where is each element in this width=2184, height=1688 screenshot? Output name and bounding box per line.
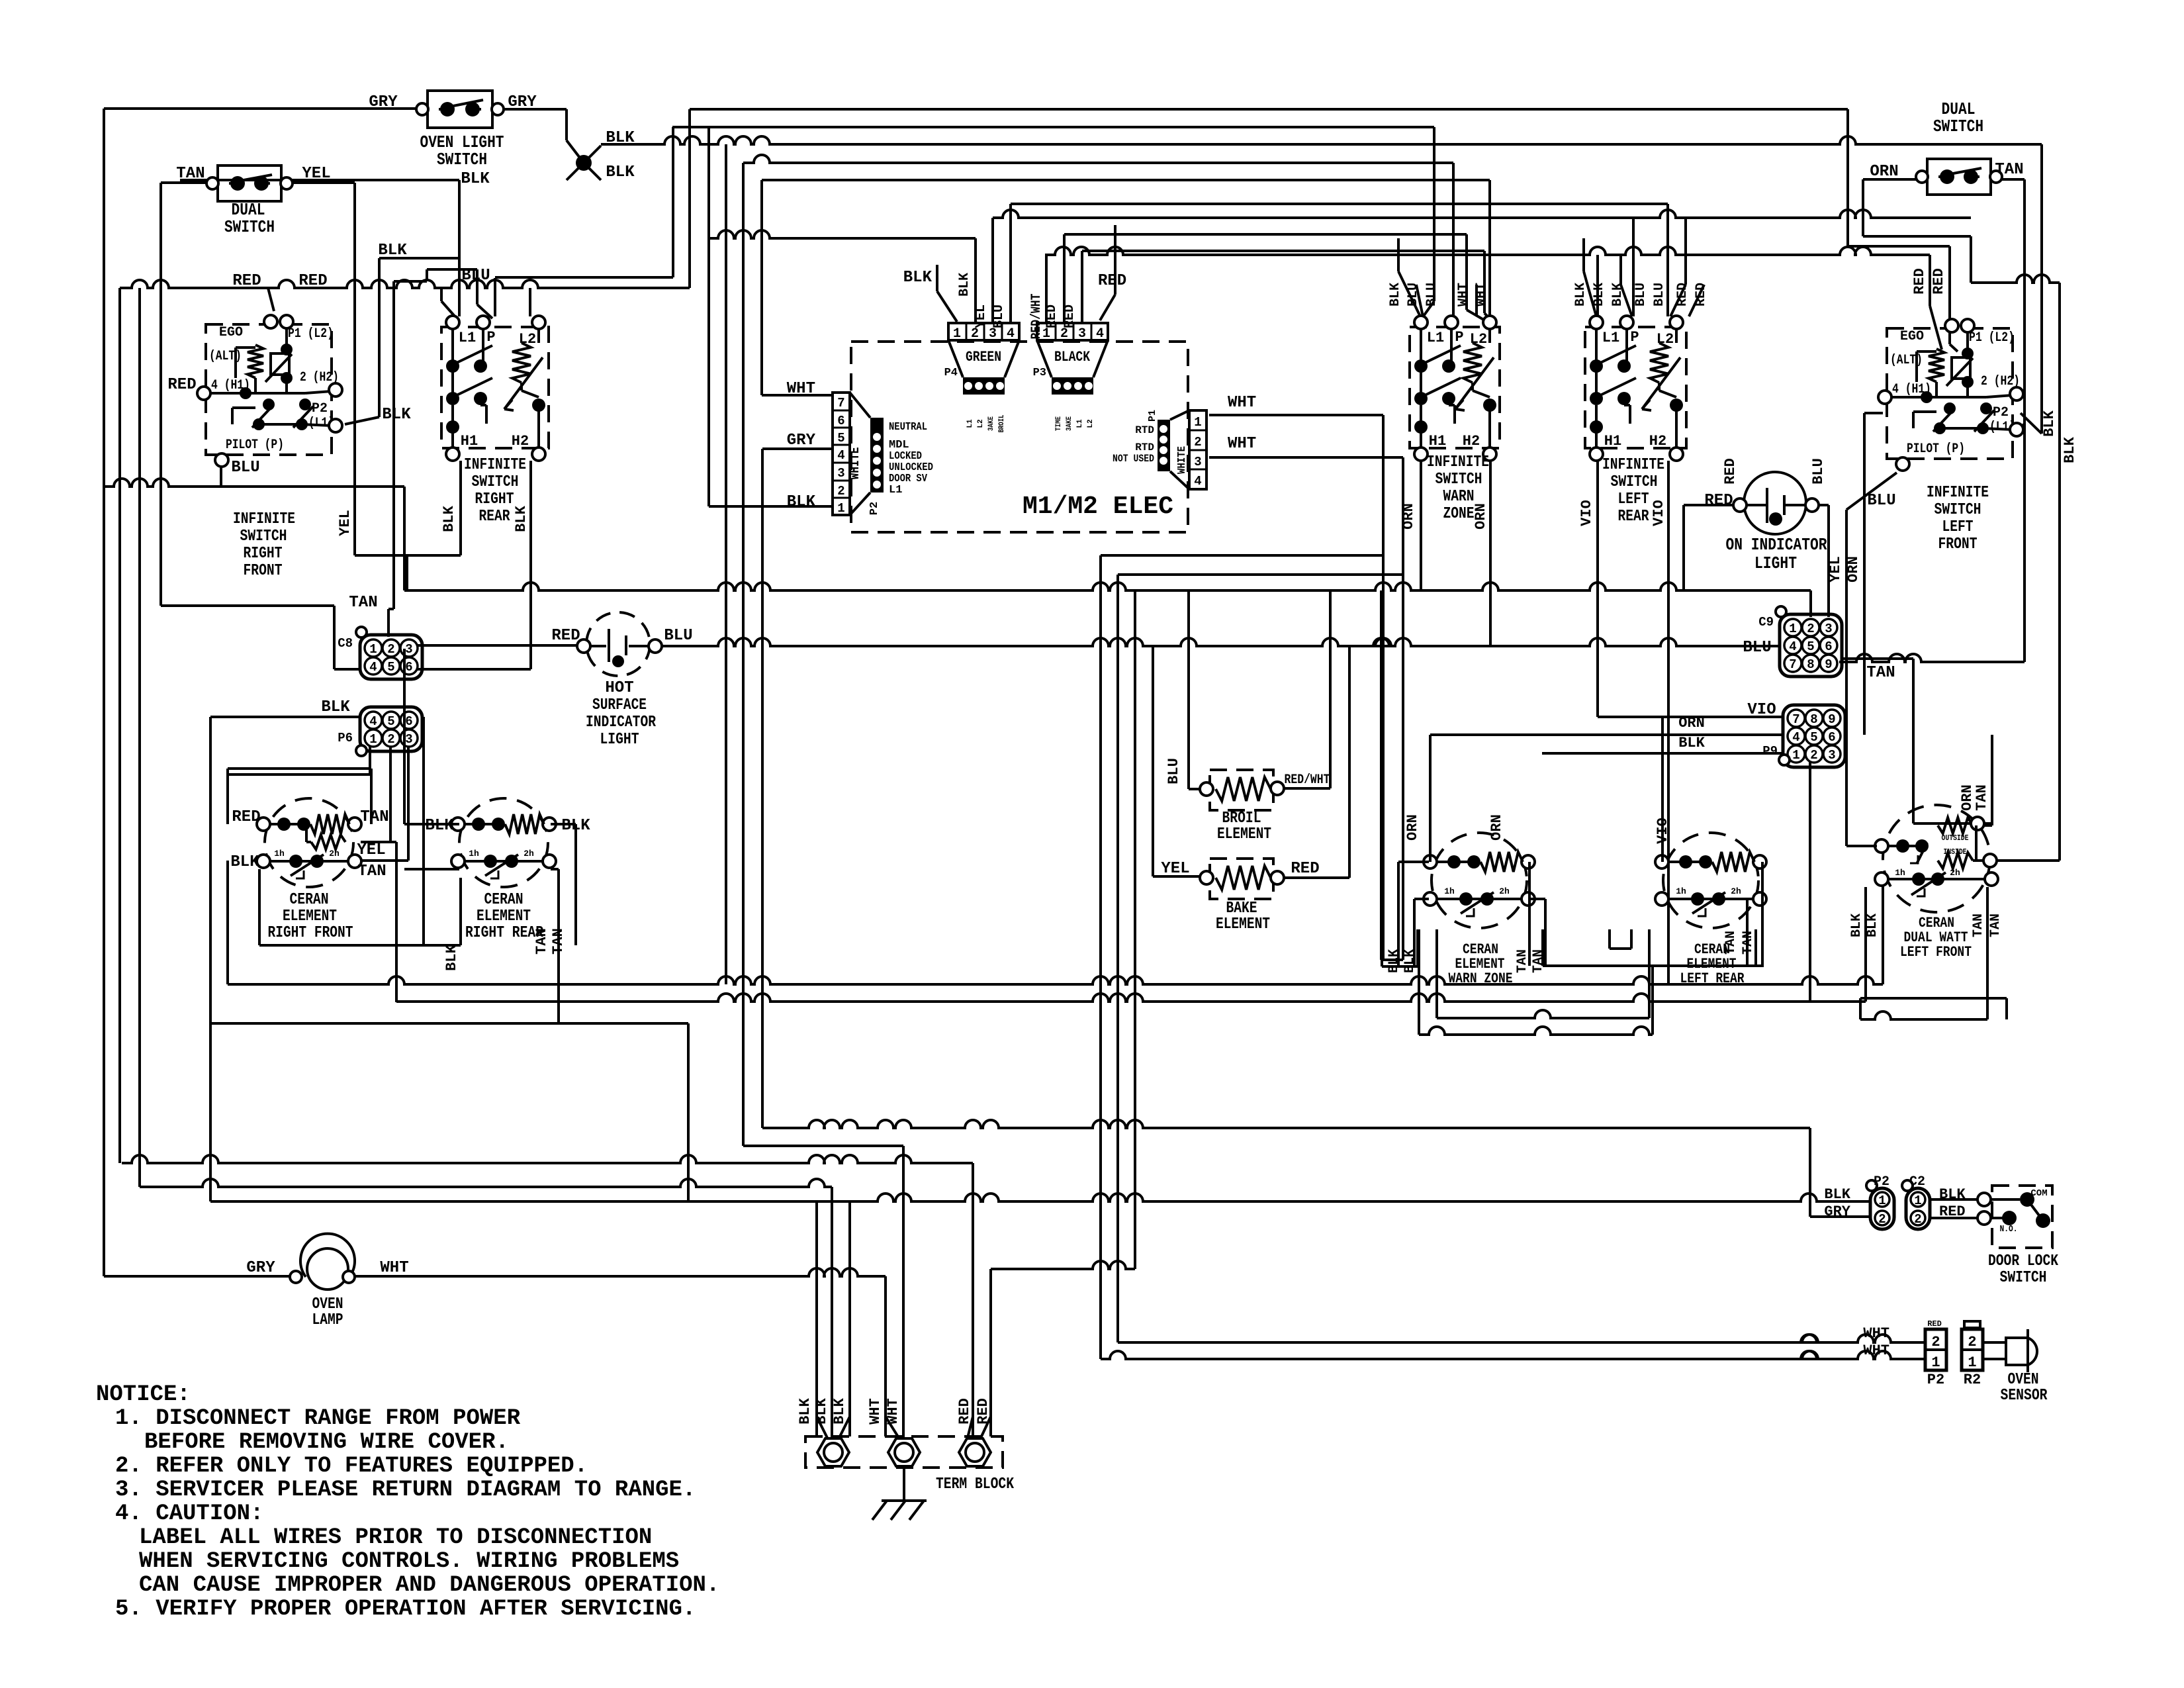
wire v3085 corner xyxy=(2040,144,2043,434)
wire bus y385 xyxy=(1045,247,1930,255)
C8 connector xyxy=(360,635,422,679)
wire YEL from pilot xyxy=(1846,473,1897,510)
svg-text:BEFORE REMOVING WIRE COVER.: BEFORE REMOVING WIRE COVER. xyxy=(144,1430,509,1455)
svg-text:NEUTRAL: NEUTRAL xyxy=(889,421,927,434)
wire P9 pin2 drop xyxy=(1809,762,1811,1002)
wire C9 right to corner xyxy=(1843,657,1913,660)
door lock P2 xyxy=(1870,1188,1894,1229)
wire term block WHT1 from lamp xyxy=(884,1276,887,1436)
ceran right front xyxy=(265,798,353,887)
svg-text:ELEMENT: ELEMENT xyxy=(283,908,337,925)
svg-text:ORN: ORN xyxy=(1845,556,1862,583)
wire top bus y246 xyxy=(743,155,1453,163)
svg-text:OUTSIDE: OUTSIDE xyxy=(1942,833,1969,843)
svg-text:EGO: EGO xyxy=(219,325,243,340)
svg-text:BLK: BLK xyxy=(2041,410,2058,436)
wire corner v1663 xyxy=(1099,555,1102,1359)
svg-text:L1: L1 xyxy=(966,419,974,428)
svg-text:YEL: YEL xyxy=(357,841,385,859)
wire WHT M1/M2 pin7 xyxy=(762,394,831,397)
svg-text:ORN: ORN xyxy=(1400,503,1417,530)
svg-text:L1: L1 xyxy=(1076,419,1084,428)
svg-text:DOOR LOCK: DOOR LOCK xyxy=(1988,1252,2058,1270)
svg-text:1: 1 xyxy=(1792,748,1799,763)
svg-text:6: 6 xyxy=(1825,639,1832,654)
wire BLU bridge xyxy=(427,268,477,271)
wire top bus y192 xyxy=(672,126,1434,128)
wire GRY M1/M2 pin4 xyxy=(762,447,831,450)
svg-text:RED: RED xyxy=(167,376,196,394)
svg-text:GRY: GRY xyxy=(508,93,537,111)
svg-text:BLK: BLK xyxy=(230,853,259,871)
wire BLK P6 connect xyxy=(209,717,212,1201)
wire h1546 to v1040 xyxy=(210,1022,688,1025)
svg-text:L1: L1 xyxy=(1427,330,1444,346)
svg-text:BLK: BLK xyxy=(1573,283,1588,306)
svg-text:REAR: REAR xyxy=(479,508,510,526)
left rear element wires xyxy=(1661,717,1664,862)
svg-text:RED: RED xyxy=(1704,492,1733,510)
svg-text:P1 (L2): P1 (L2) xyxy=(1969,330,2015,346)
svg-text:SWITCH: SWITCH xyxy=(1934,501,1981,519)
svg-text:RED: RED xyxy=(1722,458,1739,485)
svg-text:L1: L1 xyxy=(1602,330,1619,346)
svg-text:LAMP: LAMP xyxy=(312,1311,343,1329)
svg-text:LEFT REAR: LEFT REAR xyxy=(1680,970,1745,987)
svg-text:BLK: BLK xyxy=(425,817,454,835)
svg-text:P: P xyxy=(1455,329,1463,346)
svg-text:6: 6 xyxy=(1828,730,1835,745)
term block lead-ins xyxy=(817,1417,827,1438)
svg-text:2h: 2h xyxy=(1950,868,1960,878)
svg-text:P1: P1 xyxy=(1147,410,1158,422)
svg-text:INSIDE: INSIDE xyxy=(1944,847,1967,857)
svg-text:BLK: BLK xyxy=(382,406,411,424)
svg-text:2: 2 xyxy=(387,732,394,747)
svg-text:3: 3 xyxy=(1078,326,1086,342)
svg-text:4: 4 xyxy=(1007,326,1015,342)
svg-text:CERAN: CERAN xyxy=(290,891,329,909)
oven light switch box xyxy=(428,91,492,128)
wire bus y976 through hot light xyxy=(662,638,1780,646)
wire BLU broil xyxy=(1187,590,1190,789)
wire BLU stub to P xyxy=(494,278,496,316)
svg-text:FRONT: FRONT xyxy=(1938,536,1978,553)
wire BLK from left-front P2 xyxy=(2021,413,2042,434)
svg-text:2h: 2h xyxy=(523,849,534,859)
svg-text:4: 4 xyxy=(1194,474,1201,489)
wire GRY border to oven lamp xyxy=(103,109,105,1276)
warn zone element wires xyxy=(1429,735,1432,862)
svg-text:P1 (L2): P1 (L2) xyxy=(288,326,334,342)
wire top bus y272 xyxy=(762,179,1490,181)
svg-text:SWITCH: SWITCH xyxy=(472,473,519,491)
svg-text:P: P xyxy=(1630,329,1639,346)
svg-text:VIO: VIO xyxy=(1747,701,1776,719)
svg-text:M1/M2 ELEC: M1/M2 ELEC xyxy=(1023,492,1173,521)
wire BLU pilot chain xyxy=(220,465,222,487)
wire BLK bridge xyxy=(379,257,459,259)
svg-text:ORN: ORN xyxy=(1488,814,1505,841)
svg-text:SWITCH: SWITCH xyxy=(1611,473,1658,491)
wire BLU to C8 pin2 xyxy=(426,269,428,281)
svg-text:GRY: GRY xyxy=(1824,1203,1850,1220)
svg-text:1h: 1h xyxy=(1676,886,1686,896)
svg-text:SWITCH: SWITCH xyxy=(240,528,287,545)
svg-text:RED: RED xyxy=(232,808,260,826)
svg-text:1h: 1h xyxy=(469,849,479,859)
svg-text:BLU: BLU xyxy=(664,627,692,645)
svg-text:SWITCH: SWITCH xyxy=(224,217,275,237)
svg-text:P4: P4 xyxy=(944,367,958,379)
svg-text:5. VERIFY PROPER OPERATION AF: 5. VERIFY PROPER OPERATION AFTER SERVICI… xyxy=(115,1597,696,1622)
svg-text:ZONE: ZONE xyxy=(1443,505,1475,523)
svg-text:YEL: YEL xyxy=(1161,860,1189,878)
wire GRY into X junction xyxy=(565,109,568,140)
svg-text:BLU: BLU xyxy=(1652,283,1667,306)
svg-text:H1: H1 xyxy=(1429,433,1446,449)
wire bus y1487 xyxy=(228,976,1883,984)
svg-text:5: 5 xyxy=(837,431,844,445)
svg-text:P2: P2 xyxy=(1927,1372,1944,1388)
svg-text:1: 1 xyxy=(369,642,377,657)
svg-text:2h: 2h xyxy=(1499,886,1510,896)
wire term block BLK2 xyxy=(831,1187,833,1436)
wire BLU on-light right xyxy=(1812,504,1829,506)
svg-text:P2: P2 xyxy=(868,502,881,515)
svg-text:BLK: BLK xyxy=(443,944,460,970)
svg-text:REAR: REAR xyxy=(1618,508,1649,526)
svg-text:TAN: TAN xyxy=(1971,914,1986,937)
svg-text:BLK: BLK xyxy=(787,493,816,511)
svg-text:INFINITE: INFINITE xyxy=(1602,456,1664,474)
svg-text:CAN CAUSE IMPROPER AND DANGERO: CAN CAUSE IMPROPER AND DANGEROUS OPERATI… xyxy=(139,1573,719,1598)
wire BLK M1/M2 pin1 xyxy=(709,505,831,508)
svg-text:RIGHT: RIGHT xyxy=(244,545,283,563)
svg-text:SWITCH: SWITCH xyxy=(1435,471,1482,489)
svg-text:4. CAUTION:: 4. CAUTION: xyxy=(115,1501,263,1526)
svg-text:BLK: BLK xyxy=(321,698,350,716)
svg-text:5: 5 xyxy=(1807,639,1814,654)
wire right-rear switch H2 down xyxy=(529,461,532,669)
svg-text:RED/WHT: RED/WHT xyxy=(1285,773,1330,788)
svg-text:BLK: BLK xyxy=(2062,436,2078,463)
svg-text:BLU: BLU xyxy=(1165,758,1182,784)
svg-text:HOT: HOT xyxy=(605,679,633,697)
wire RED on-light left xyxy=(1684,504,1733,506)
wire mid vertical v1715 xyxy=(1134,590,1136,1269)
svg-text:RED: RED xyxy=(956,1398,973,1425)
svg-text:1: 1 xyxy=(1968,1354,1976,1371)
wire YEL bake xyxy=(1152,646,1154,876)
wire dual-watt element bottom xyxy=(1864,887,1867,1002)
svg-text:BLK: BLK xyxy=(461,170,490,188)
M1/M2 white connector P2 xyxy=(833,393,850,515)
svg-text:TERM BLOCK: TERM BLOCK xyxy=(936,1476,1014,1493)
svg-text:6: 6 xyxy=(405,714,412,729)
svg-text:BLU: BLU xyxy=(1810,458,1827,485)
svg-text:1: 1 xyxy=(1914,1194,1921,1208)
bake element xyxy=(1210,859,1273,899)
svg-text:OVEN: OVEN xyxy=(2008,1371,2039,1389)
svg-text:TAN: TAN xyxy=(176,165,205,183)
dual watt wires xyxy=(1846,845,1877,847)
svg-text:GRY: GRY xyxy=(787,432,816,449)
svg-text:P9: P9 xyxy=(1762,744,1778,759)
svg-text:TAN: TAN xyxy=(357,863,386,880)
svg-text:4: 4 xyxy=(369,660,377,675)
svg-text:C2: C2 xyxy=(1909,1174,1925,1190)
svg-text:GRY: GRY xyxy=(369,93,398,111)
svg-text:BLK: BLK xyxy=(813,1397,830,1424)
svg-text:4: 4 xyxy=(1789,639,1796,654)
svg-text:C8: C8 xyxy=(338,636,353,651)
svg-text:2: 2 xyxy=(1810,748,1817,763)
wire bus y1513 xyxy=(396,994,1866,1002)
svg-text:BLK: BLK xyxy=(606,164,635,181)
wire feeds left-rear switch xyxy=(1596,255,1599,316)
svg-text:1: 1 xyxy=(1789,622,1796,636)
svg-text:2: 2 xyxy=(1931,1334,1940,1350)
dual switch right box xyxy=(1927,159,1991,195)
svg-text:TAN: TAN xyxy=(1531,949,1546,973)
svg-text:4: 4 xyxy=(1792,730,1799,745)
svg-text:6: 6 xyxy=(837,414,844,428)
wire right-rear switch H1 down xyxy=(459,461,462,555)
svg-text:BLK: BLK xyxy=(1678,735,1705,751)
svg-text:BLK: BLK xyxy=(831,1397,848,1424)
svg-text:TAN: TAN xyxy=(1515,949,1530,973)
svg-text:RED: RED xyxy=(232,272,261,290)
svg-text:TAN: TAN xyxy=(1995,161,2023,179)
svg-text:RED: RED xyxy=(551,627,580,645)
wire RED bus y435 xyxy=(120,280,690,288)
wire RED/WHT broil xyxy=(1284,787,1330,790)
svg-text:BLK: BLK xyxy=(606,129,635,147)
svg-text:P: P xyxy=(486,329,495,346)
wire BLK from X to right-rear L1 xyxy=(180,179,459,181)
svg-text:OVEN: OVEN xyxy=(312,1295,343,1313)
svg-text:LIGHT: LIGHT xyxy=(1754,553,1797,573)
wire right border vert x2087 xyxy=(1380,590,1383,960)
wire ORN right dual switch xyxy=(1863,178,1918,181)
wire WHT RTD right 2 xyxy=(1209,456,1403,459)
wire left-rear element box xyxy=(1541,929,1544,966)
svg-text:3. SERVICER PLEASE RETURN DIA: 3. SERVICER PLEASE RETURN DIAGRAM TO RAN… xyxy=(115,1477,696,1503)
svg-text:7: 7 xyxy=(1792,712,1799,727)
wire WHT lamp to term block xyxy=(353,1268,886,1276)
svg-text:BROIL: BROIL xyxy=(998,414,1006,432)
M1/M2 ELEC box xyxy=(851,342,1188,532)
svg-text:YEL: YEL xyxy=(337,510,353,536)
svg-text:BLK: BLK xyxy=(441,505,457,532)
wire bus y360 xyxy=(709,230,976,238)
svg-text:H1: H1 xyxy=(461,433,478,449)
M1/M2 black connector xyxy=(1037,323,1108,340)
wire GRY long to door lock xyxy=(762,1120,1810,1128)
M1/M2 green connector xyxy=(948,323,1019,340)
wire warn switch H1 down xyxy=(1420,461,1422,590)
svg-text:NOT USED: NOT USED xyxy=(1113,453,1154,465)
svg-text:2h: 2h xyxy=(1731,886,1741,896)
svg-text:2: 2 xyxy=(1968,1334,1976,1350)
svg-text:BLU: BLU xyxy=(1424,283,1439,306)
svg-text:3AKE: 3AKE xyxy=(1066,416,1073,431)
svg-text:WHT: WHT xyxy=(867,1398,884,1425)
svg-text:ELEMENT: ELEMENT xyxy=(1217,825,1271,843)
ground symbol xyxy=(903,1468,905,1501)
svg-text:WARN: WARN xyxy=(1443,488,1475,506)
svg-text:TAN: TAN xyxy=(1866,664,1895,682)
svg-text:INFINITE: INFINITE xyxy=(464,456,526,474)
svg-text:4: 4 xyxy=(837,448,844,463)
svg-text:H1: H1 xyxy=(1604,433,1621,449)
svg-text:PILOT (P): PILOT (P) xyxy=(1907,442,1965,457)
wire term block WHT2 xyxy=(902,1146,905,1436)
svg-text:5: 5 xyxy=(387,660,394,675)
svg-text:BLU: BLU xyxy=(461,267,490,285)
wire corner v1689 xyxy=(1116,575,1119,1342)
svg-text:LEFT FRONT: LEFT FRONT xyxy=(1900,944,1972,961)
broil element xyxy=(1210,770,1273,810)
oven sensor R2 xyxy=(1962,1329,1983,1370)
wire TAN dual switch left xyxy=(161,181,214,184)
svg-text:WARN ZONE: WARN ZONE xyxy=(1449,970,1513,987)
wire warn element box xyxy=(1381,929,1383,966)
C8 wires xyxy=(418,644,577,647)
svg-text:RED: RED xyxy=(1911,268,1928,295)
svg-text:P6: P6 xyxy=(338,731,353,745)
svg-text:L2: L2 xyxy=(1087,419,1095,428)
svg-text:BLK: BLK xyxy=(903,269,933,287)
svg-text:2: 2 xyxy=(1194,435,1201,449)
dual switch left box xyxy=(218,165,281,201)
svg-text:GRY: GRY xyxy=(246,1259,275,1277)
P6 wires xyxy=(369,746,371,774)
svg-text:7: 7 xyxy=(1789,657,1796,672)
svg-text:3: 3 xyxy=(1828,748,1835,763)
svg-text:ORN: ORN xyxy=(1404,814,1421,841)
wire WHT RTD right 1 xyxy=(1209,414,1383,416)
wire P9 row2 row3 feeds xyxy=(1430,733,1784,736)
wire YEL dual switch left xyxy=(287,181,355,184)
svg-text:BROIL: BROIL xyxy=(1222,810,1261,827)
svg-text:TAN: TAN xyxy=(533,928,550,955)
svg-text:ON INDICATOR: ON INDICATOR xyxy=(1726,535,1827,555)
wire bus y308 xyxy=(1011,203,1668,205)
wire RED border vertical xyxy=(118,288,121,1163)
svg-text:BLK: BLK xyxy=(378,242,407,259)
svg-text:3: 3 xyxy=(405,642,412,657)
svg-text:BLU: BLU xyxy=(1633,283,1649,306)
svg-text:YEL: YEL xyxy=(1827,556,1844,583)
svg-text:RIGHT FRONT: RIGHT FRONT xyxy=(268,924,353,942)
svg-text:ORN: ORN xyxy=(1870,163,1898,181)
svg-text:8: 8 xyxy=(1810,712,1817,727)
wire term block RED1 xyxy=(972,1163,974,1436)
svg-text:2: 2 xyxy=(387,642,394,657)
svg-text:8: 8 xyxy=(1807,657,1814,672)
infinite switch right rear xyxy=(441,327,549,448)
svg-text:BLK: BLK xyxy=(1849,914,1864,937)
svg-text:BLACK: BLACK xyxy=(1054,349,1091,365)
svg-text:3: 3 xyxy=(1194,455,1201,469)
svg-text:H2: H2 xyxy=(1649,433,1666,449)
svg-text:SENSOR: SENSOR xyxy=(2001,1387,2048,1405)
P9 connector xyxy=(1783,705,1845,767)
ceran right rear xyxy=(459,798,548,887)
term block xyxy=(805,1436,1003,1468)
svg-text:H2: H2 xyxy=(512,433,529,449)
wire TAN right dual switch xyxy=(1996,178,2025,181)
svg-text:BLK: BLK xyxy=(1824,1186,1850,1203)
svg-text:1: 1 xyxy=(1878,1194,1886,1208)
svg-text:BLU: BLU xyxy=(1743,639,1771,657)
svg-text:RTD: RTD xyxy=(1135,424,1154,436)
svg-text:1: 1 xyxy=(1931,1354,1940,1371)
svg-text:P2: P2 xyxy=(1993,405,2009,420)
wire RED to term block xyxy=(122,1155,973,1163)
door lock switch xyxy=(1930,1198,1984,1201)
svg-text:FRONT: FRONT xyxy=(244,562,283,580)
svg-text:WHT: WHT xyxy=(1228,394,1256,412)
svg-text:SWITCH: SWITCH xyxy=(437,150,487,169)
svg-text:RED: RED xyxy=(1927,1319,1942,1329)
wire bus y329 xyxy=(993,210,1971,218)
svg-text:5: 5 xyxy=(1810,730,1817,745)
svg-text:BLK: BLK xyxy=(1865,914,1880,937)
svg-text:WHT: WHT xyxy=(1863,1325,1889,1342)
svg-text:WHT: WHT xyxy=(1456,283,1471,306)
wire BLU vert to C9 xyxy=(1827,505,1830,617)
svg-text:YEL: YEL xyxy=(302,165,330,183)
svg-text:WHITE: WHITE xyxy=(1176,446,1189,474)
EGO right front xyxy=(206,324,332,455)
wire BLU net to M1/M2 xyxy=(495,276,673,279)
svg-text:SURFACE: SURFACE xyxy=(592,696,647,714)
ceran right front wires xyxy=(226,769,229,824)
svg-text:4: 4 xyxy=(369,714,377,729)
wire dual-watt top terms xyxy=(1980,824,1992,827)
wire term block BLK3 xyxy=(848,1201,851,1436)
svg-text:1h: 1h xyxy=(1895,868,1905,878)
wire feeds warn-zone switch xyxy=(1433,127,1435,301)
svg-text:3: 3 xyxy=(405,732,412,747)
on indicator light xyxy=(1744,472,1806,534)
svg-text:NOTICE:: NOTICE: xyxy=(96,1382,191,1407)
svg-text:P3: P3 xyxy=(1033,367,1046,379)
door lock C2 xyxy=(1906,1188,1930,1229)
svg-text:TAN: TAN xyxy=(1988,914,2003,937)
wire top bus y218 xyxy=(601,136,2042,144)
ceran warn zone xyxy=(1432,833,1527,928)
svg-text:ELEMENT: ELEMENT xyxy=(1216,915,1270,933)
EGO left front xyxy=(1887,328,2013,459)
wire BLK long bus to door lock xyxy=(138,288,141,1187)
svg-text:WHT: WHT xyxy=(1228,435,1256,453)
oven lamp xyxy=(300,1234,355,1277)
svg-text:1h: 1h xyxy=(1444,886,1455,896)
wire verticals upper middle xyxy=(688,109,691,288)
svg-text:ORN: ORN xyxy=(1678,715,1705,731)
warn zone switch xyxy=(1410,327,1500,448)
wire warn switch H2 down xyxy=(1489,461,1492,646)
svg-text:H2: H2 xyxy=(1463,433,1480,449)
svg-text:LABEL ALL WIRES PRIOR TO DISCO: LABEL ALL WIRES PRIOR TO DISCONNECTION xyxy=(139,1525,652,1550)
ceran right rear wires xyxy=(404,823,459,825)
svg-text:1: 1 xyxy=(953,326,961,342)
svg-text:BLK: BLK xyxy=(797,1397,813,1424)
